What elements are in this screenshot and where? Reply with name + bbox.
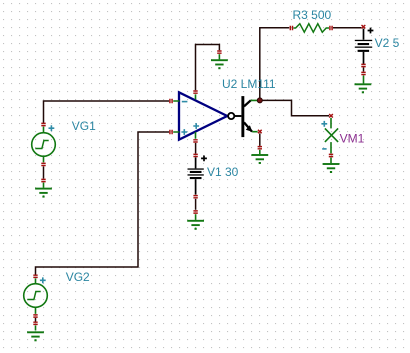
svg-text:VG2: VG2 bbox=[66, 270, 90, 284]
wire V2 bottom to ground bbox=[363, 67, 365, 71]
wire VG1 top to U2 inverting input bbox=[44, 101, 170, 123]
wire VG1 bottom to ground bbox=[43, 166, 45, 178]
wire U2 bottom power pin to V1 bbox=[195, 143, 197, 154]
wire U2 top power pin to ground corner bbox=[196, 45, 220, 91]
voltage generator VG1 bbox=[32, 123, 56, 165]
resistor R3 bbox=[290, 24, 332, 33]
battery V1 bbox=[188, 154, 207, 179]
wire R3 to V2 bbox=[333, 27, 362, 29]
op-amp comparator U2 triangle bbox=[170, 91, 227, 142]
svg-text:V2 5: V2 5 bbox=[375, 36, 400, 50]
junction node (collector) bbox=[257, 98, 262, 103]
ground below V2 bbox=[355, 72, 372, 93]
ground below VG1 bbox=[35, 179, 52, 197]
ground below VM1 bbox=[323, 154, 340, 173]
svg-text:R3 500: R3 500 bbox=[293, 8, 332, 22]
wire collector node to VM1 bbox=[262, 100, 329, 115]
battery V2 bbox=[355, 25, 374, 67]
svg-text:V1 30: V1 30 bbox=[207, 165, 239, 179]
U2 output circle bbox=[228, 113, 241, 119]
ground below VG2 bbox=[27, 322, 44, 341]
wire V1 bottom to ground bbox=[195, 157, 197, 194]
ground below U2 top power corner bbox=[211, 51, 228, 69]
ground below emitter bbox=[251, 147, 268, 164]
svg-text:VG1: VG1 bbox=[72, 119, 96, 133]
voltmeter VM1 bbox=[321, 114, 338, 153]
ground below V1 bbox=[187, 196, 204, 230]
wire VG2 bottom to ground bbox=[35, 318, 37, 322]
U2 output transistor (open collector) bbox=[241, 96, 261, 137]
wire VG2 top to U2 non-inverting input bbox=[36, 132, 170, 275]
svg-text:U2 LM111: U2 LM111 bbox=[222, 77, 276, 91]
svg-text:VM1: VM1 bbox=[340, 131, 365, 145]
voltage generator VG2 bbox=[24, 275, 48, 317]
wire emitter to ground bbox=[259, 133, 261, 146]
wire collector node to R3 bbox=[260, 28, 289, 99]
